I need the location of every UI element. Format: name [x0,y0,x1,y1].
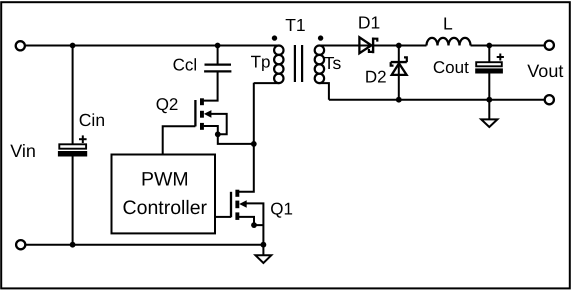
svg-text:L: L [443,14,453,34]
capacitor Cin [58,135,87,156]
wire L to Vout [471,45,545,47]
wire Q1 source lead [239,217,263,225]
transformer T1 primary winding Tp [274,46,283,84]
node Q2 source-body [215,131,221,137]
wire Q2 gate lead [163,126,196,154]
node D2 bottom [396,97,402,103]
diode D1 [359,37,377,53]
op-amp PWM controller box [112,155,216,234]
svg-text:Controller: Controller [123,197,208,219]
wire Cin top lead [72,46,74,145]
terminal Vin- [16,240,25,249]
wire secondary bottom lead [319,83,329,100]
node clamp junction [251,141,257,147]
terminal Vin+ [16,41,25,50]
transformer T1 core [295,45,302,82]
svg-text:PWM: PWM [141,168,189,190]
transistor Q2 [195,98,211,130]
svg-text:T1: T1 [285,15,305,35]
svg-text:Vin: Vin [10,141,36,161]
inductor L [427,38,471,46]
terminal Vout+ [545,41,554,50]
svg-text:Ccl: Ccl [173,55,198,74]
wire Q1 body lead [246,203,263,244]
svg-text:Q2: Q2 [156,95,179,114]
wire Q2 source lead [204,126,254,144]
wire Q1 drain lead [239,83,254,192]
svg-text:Vout: Vout [527,61,563,81]
wire primary bottom lead [254,82,279,84]
wire bottom input bus [26,244,263,246]
svg-text:Ts: Ts [324,53,342,73]
node Cin top [70,43,76,49]
wire Cin bottom lead [72,157,74,245]
wire Cout bottom lead [488,74,490,100]
node Ccl top [215,43,221,49]
node Cout top [486,43,492,49]
node primary phase dot [272,35,277,40]
node Cout bottom [486,97,492,103]
node D2 top [396,43,402,49]
svg-text:Cin: Cin [79,110,105,130]
transistor Q1 [231,190,247,220]
svg-text:Q1: Q1 [270,200,293,219]
ground secondary [481,100,497,127]
svg-text:D2: D2 [365,68,387,87]
svg-text:Tp: Tp [251,53,271,72]
terminal Vout- [545,95,554,104]
wire secondary top lead [319,45,426,47]
ground primary [256,245,272,263]
wire bottom output rail [329,99,544,101]
wire Q1 gate lead [215,216,231,218]
wire top input bus [26,45,279,47]
wire Q2 body lead [211,114,227,134]
wire Ccl bottom lead to Q2 drain [204,73,218,101]
wire D2 top lead [398,46,400,100]
node secondary phase dot [318,35,323,40]
capacitor Cout [475,54,504,74]
wire Cout top lead [488,46,490,63]
transformer T1 secondary winding Ts [315,46,324,84]
node Cin bottom [70,242,76,248]
capacitor Ccl [204,65,231,72]
node ground junction [261,242,267,248]
wire Ccl top lead [217,46,219,64]
node Q1 source-body [251,222,257,228]
svg-text:D1: D1 [358,13,380,33]
svg-text:Cout: Cout [433,58,469,77]
diode D2 [391,57,407,75]
